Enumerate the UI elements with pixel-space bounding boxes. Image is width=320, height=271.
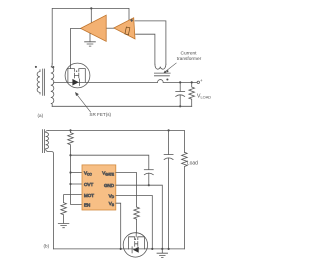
transformer T2 core: [43, 130, 45, 153]
svg-text:(a): (a): [38, 113, 44, 118]
node: dot at cap branch on bus: [69, 154, 71, 156]
capacitor C3 output: [164, 130, 173, 249]
node: cap bottom junction: [179, 105, 181, 107]
wire: GND pin to bottom rail: [116, 185, 163, 249]
resistor R2 MOT: [61, 203, 67, 224]
svg-text:GND: GND: [104, 183, 115, 188]
wire: main rail to output terminal: [163, 81, 197, 83]
op-amp U2 comparator with hysteresis: [114, 18, 135, 39]
node: CT primary polarity dot: [166, 78, 168, 80]
node: cap to GND dot: [148, 184, 150, 186]
op-amp U1 gate-drive buffer: [81, 15, 107, 41]
current transformer CT1 secondary winding: [155, 64, 166, 69]
wire: main rail from secondary tap through SR FET to current transformer: [54, 81, 158, 83]
svg-text:Load: Load: [187, 161, 198, 167]
wire: VD pin to bottom rail: [116, 196, 153, 249]
node: junction dot on top rail: [90, 7, 92, 9]
current transformer CT1 core: [154, 73, 170, 76]
wire: circuit (b) bottom rail: [54, 248, 185, 250]
svg-text:EN: EN: [84, 202, 90, 207]
label: Current transformer with arrow: [163, 50, 201, 73]
ground: MOT resistor ground: [58, 223, 69, 227]
node: cap dot on rail: [168, 248, 170, 250]
wire: VCC bypass cap branch: [71, 155, 149, 169]
wire: VS pin to bottom rail: [116, 203, 121, 249]
svg-text:VD: VD: [109, 193, 115, 199]
transistor Q1 SR FET in circle: [65, 63, 90, 88]
ground: buffer ground: [85, 33, 96, 46]
svg-text:VS: VS: [109, 201, 115, 207]
wire: buffer supply drop: [90, 8, 92, 23]
label: SR FET(s) with arrow: [75, 92, 112, 117]
node: VD dot on rail: [151, 248, 153, 250]
wire: VGATE to gate resistor: [116, 173, 137, 207]
wire: comparator top input to current-transformer secondary right lead: [135, 21, 166, 64]
resistor R3 gate: [134, 207, 140, 233]
node: GND dot on rail: [161, 248, 163, 250]
svg-text:Current: Current: [181, 50, 198, 56]
transformer T2 secondary winding: [46, 130, 54, 249]
wire: circuit (a) bottom rail: [52, 105, 192, 107]
transformer T1 primary winding: [37, 70, 40, 94]
inductor: current-transformer primary turn: [158, 80, 164, 83]
node: dot at OVT pin: [69, 183, 71, 185]
node: load top junction: [191, 81, 193, 83]
svg-text:OVT: OVT: [84, 182, 94, 187]
wire: MOT pin to resistor: [64, 195, 82, 203]
resistor R4 load: [182, 152, 188, 249]
wire: OVT pin stub: [71, 183, 83, 185]
transformer T1 core: [43, 69, 45, 95]
node: dot at VCC pin: [69, 171, 71, 173]
node: cap top junction: [179, 81, 181, 83]
capacitor C2 VCC bypass: [144, 170, 153, 186]
node: CT secondary polarity dot: [166, 70, 168, 72]
node: dot at bus branch: [69, 129, 71, 131]
svg-text:MOT: MOT: [84, 193, 94, 198]
wire: comparator output to buffer: [106, 27, 114, 29]
svg-text:transformer: transformer: [177, 56, 202, 62]
node: secondary polarity dot: [52, 66, 54, 68]
svg-text:VCC: VCC: [84, 171, 92, 177]
svg-text:VLOAD: VLOAD: [197, 94, 211, 100]
node: primary polarity dot: [35, 66, 37, 68]
svg-text:VGATE: VGATE: [102, 171, 115, 177]
svg-text:(b): (b): [44, 244, 50, 249]
wire: circuit (b) top rail with load drop: [48, 130, 184, 152]
ground: system ground below bottom rail: [157, 249, 168, 258]
resistor R1 VCC feed: [68, 130, 82, 204]
wire: comparator bottom input to current-transformer secondary left lead: [136, 34, 155, 64]
svg-text:SR FET(s): SR FET(s): [89, 112, 111, 117]
capacitor C1 output filter: [176, 82, 185, 106]
transformer T1 secondary winding: [51, 64, 54, 107]
node: VS dot on rail: [120, 248, 122, 250]
svg-text:+: +: [200, 78, 203, 83]
wire: buffer output to SR FET gate: [71, 28, 81, 65]
node: dot at output cap branch: [168, 129, 170, 131]
transistor Q2 MOSFET in circle: [123, 233, 147, 257]
wire: VCC pin stub: [71, 172, 83, 174]
resistor RLOAD: [189, 82, 195, 106]
node: output terminal: [197, 81, 199, 83]
wire: circuit (a) top rail from transformer secondary top to comparator supply: [52, 8, 129, 63]
IC U3 SR controller: [82, 165, 116, 210]
